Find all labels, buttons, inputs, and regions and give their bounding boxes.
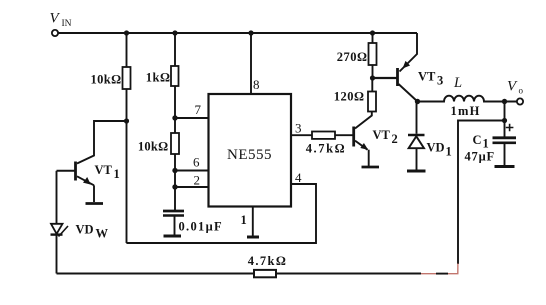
svg-text:1: 1 (114, 167, 120, 181)
transistor Q2 VT2 bar (352, 127, 355, 147)
diode VD1 triangle (409, 136, 424, 148)
resistor 10k R3 (171, 133, 179, 154)
svg-text:4.7kΩ: 4.7kΩ (248, 254, 288, 268)
wire VT1 emitter (77, 176, 94, 185)
svg-text:1: 1 (483, 137, 489, 151)
node junction 10k top (124, 30, 129, 35)
node junction pin8 (248, 30, 253, 35)
wire base node to 120R (371, 78, 373, 92)
svg-text:VD: VD (427, 141, 445, 155)
diode VDW zener slash (59, 226, 69, 237)
ground bar VT1 emitter (86, 202, 104, 205)
resistor 4.7k R7 bottom (254, 270, 276, 277)
svg-text:8: 8 (253, 77, 260, 92)
svg-text:1: 1 (241, 213, 247, 227)
svg-text:0.01μF: 0.01μF (179, 220, 223, 234)
wire cap to ground (174, 217, 176, 236)
wire 1k bottom chain down (174, 86, 176, 211)
wire VT3 base lead (373, 77, 397, 79)
resistor 4.7k R4 horizontal (312, 132, 335, 139)
node junction feedback (502, 118, 507, 123)
capacitor C1 plus sign (506, 124, 514, 132)
svg-text:4.7kΩ: 4.7kΩ (306, 142, 347, 156)
wire VT2 emitter arrow (360, 143, 368, 150)
node VIN terminal (52, 30, 58, 36)
node Vo terminal (517, 98, 523, 104)
svg-text:V: V (50, 11, 61, 27)
wire VT3 emitter arrow (PNP into base) (403, 61, 411, 69)
svg-text:o: o (519, 86, 524, 96)
wire pin 6 stub (175, 170, 209, 172)
svg-text:L: L (453, 75, 462, 91)
svg-text:1kΩ: 1kΩ (146, 71, 171, 85)
wire VDW to bottom rail (56, 236, 58, 274)
wire pin 3 stub (291, 134, 312, 136)
wire pin 1 drop (252, 207, 254, 237)
node junction 270R top (370, 30, 375, 35)
svg-text:10kΩ: 10kΩ (90, 73, 121, 87)
wire 4.7k to VT2 base (335, 134, 353, 136)
resistor 270R R5 (369, 43, 377, 65)
transistor Q3 VT3 bar (396, 68, 399, 86)
svg-text:120Ω: 120Ω (334, 90, 365, 104)
capacitor 0.01uF plates (163, 210, 184, 213)
svg-text:47μF: 47μF (465, 150, 495, 164)
svg-text:NE555: NE555 (227, 147, 272, 163)
inductor L1 (418, 96, 517, 102)
node junction VT3 base (370, 75, 375, 80)
diode VDW zener triangle (51, 224, 63, 234)
svg-text:4: 4 (295, 170, 302, 185)
svg-text:2: 2 (392, 132, 398, 146)
svg-text:3: 3 (295, 121, 302, 136)
svg-text:2: 2 (194, 173, 201, 188)
wire VD1 anode drop (416, 148, 418, 170)
wire faded reddish segment bottom-right (421, 264, 458, 274)
diode VD1 cathode bar (408, 134, 425, 137)
svg-text:VT: VT (373, 128, 391, 142)
wire VT3 collector (399, 84, 418, 102)
svg-text:1: 1 (446, 145, 452, 159)
wire output to feedback node (504, 102, 506, 121)
ground bar C1 (495, 165, 515, 168)
wire collector tap to VT1 (77, 121, 126, 164)
ground bar VD1 (407, 170, 426, 173)
wire top rail VIN (59, 32, 418, 34)
wire VT2 collector (355, 111, 372, 129)
svg-text:VT: VT (95, 163, 113, 177)
node junction pin6 (172, 168, 177, 173)
ground bar pin1 (247, 236, 259, 239)
node junction pin2 (172, 184, 177, 189)
wire VT1 base lead (57, 170, 75, 172)
svg-text:6: 6 (193, 155, 200, 170)
diode VDW cathode bar (51, 233, 63, 235)
transistor Q1 VT1 bar (74, 162, 77, 181)
wire pin 4 route to divider (126, 184, 316, 243)
capacitor C1 top lead (504, 121, 506, 137)
wire VT1 emitter drop (93, 185, 95, 202)
svg-text:C: C (473, 133, 482, 147)
wire VT1 emitter arrow (83, 177, 91, 185)
svg-text:1mH: 1mH (451, 104, 481, 118)
node junction 1k top (172, 30, 177, 35)
op-amp U1 NE555 box (209, 94, 292, 207)
svg-text:V: V (507, 79, 518, 95)
svg-text:3: 3 (437, 74, 443, 88)
wire 270R top lead (372, 33, 374, 43)
svg-text:7: 7 (195, 102, 202, 117)
svg-text:IN: IN (62, 19, 72, 29)
svg-text:270Ω: 270Ω (337, 50, 368, 64)
wire C1 bottom lead (504, 144, 506, 166)
svg-text:VT: VT (418, 70, 436, 84)
wire VT2 emitter drop (368, 150, 370, 166)
node junction output (502, 99, 507, 104)
wire VT3 emitter from rail (400, 33, 418, 72)
ground bar 0.01uF (164, 235, 182, 238)
wire bottom rail right (276, 273, 421, 275)
node junction VT1 collector tap (124, 118, 129, 123)
wire pin 7 stub (175, 117, 209, 119)
wire 1k R2 top lead (174, 33, 176, 66)
wire 10k R1 top lead (126, 33, 128, 67)
diode VD1 cathode lead (416, 102, 418, 134)
svg-text:W: W (96, 227, 109, 241)
node junction switch node (415, 99, 420, 104)
wire VT2 emitter (355, 141, 368, 150)
wire feedback run to bottom rail (458, 121, 505, 265)
resistor 1k R2 (171, 66, 179, 86)
ground bar VT2 emitter (362, 166, 380, 169)
wire pin 8 drop (250, 33, 252, 94)
wire 270R to base node (372, 65, 374, 78)
capacitor C1 plates (493, 136, 517, 139)
svg-text:10kΩ: 10kΩ (138, 140, 169, 154)
resistor 10k R1 (123, 67, 131, 89)
svg-text:VD: VD (76, 223, 94, 237)
wire VT1 base to zener (56, 171, 58, 223)
resistor 120R R6 (368, 92, 376, 112)
wire bottom rail left (57, 273, 255, 275)
wire 10k bottom down to bottom run (126, 89, 128, 243)
node junction pin7 (172, 115, 177, 120)
wire pin 2 stub (175, 186, 209, 188)
